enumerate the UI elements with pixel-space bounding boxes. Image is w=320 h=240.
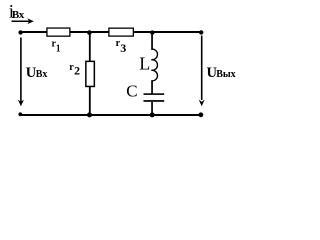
svg-text:1: 1 xyxy=(56,42,60,54)
svg-text:2: 2 xyxy=(74,66,80,78)
svg-text:C: C xyxy=(126,82,137,101)
svg-text:3: 3 xyxy=(120,41,126,55)
svg-text:Вх: Вх xyxy=(12,9,25,21)
svg-text:Вых: Вых xyxy=(216,69,235,80)
svg-text:Вх: Вх xyxy=(36,69,48,80)
svg-text:L: L xyxy=(139,54,150,74)
